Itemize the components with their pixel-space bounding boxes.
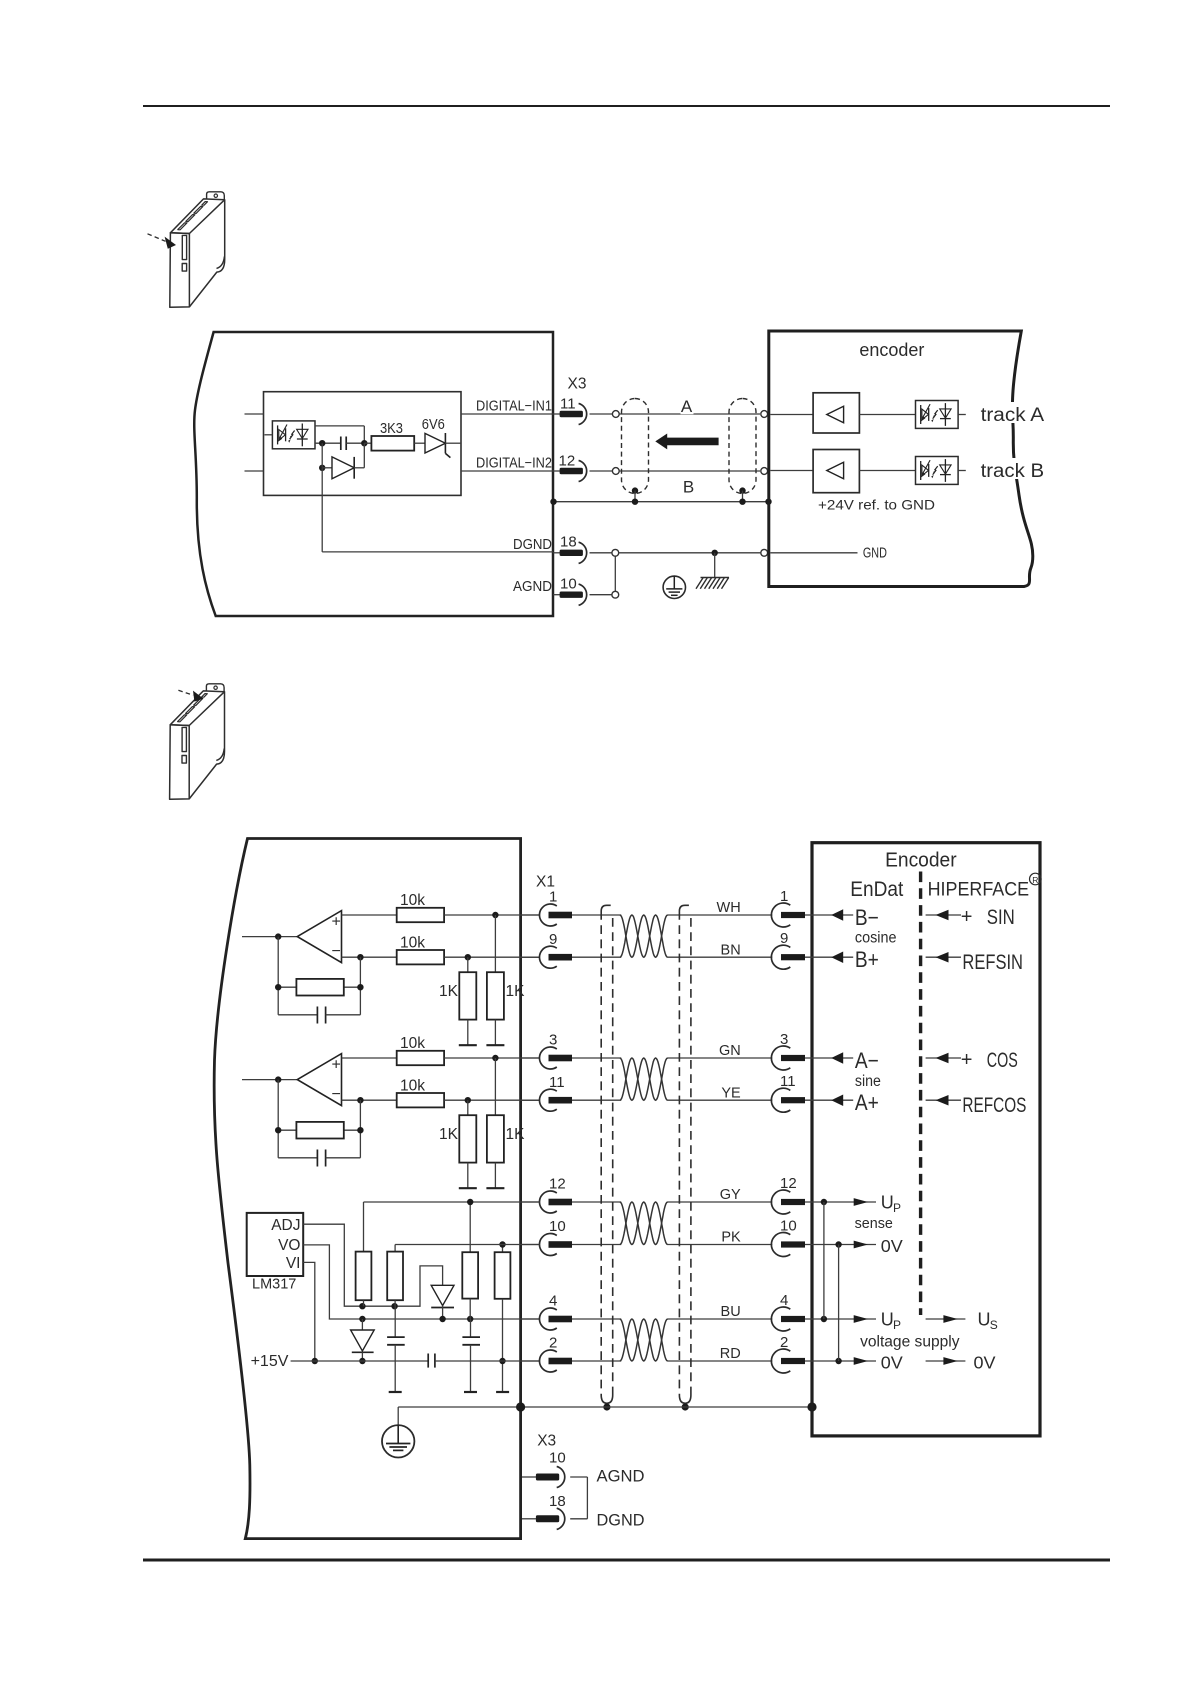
- encoder pin 3: [771, 1046, 790, 1070]
- svg-text:10: 10: [780, 1217, 797, 1234]
- resistor Rb: [394, 1245, 396, 1252]
- 0V supply row (pin 2): [805, 1360, 876, 1362]
- 10k resistor (-): [342, 1099, 397, 1101]
- svg-text:COS: COS: [987, 1049, 1018, 1072]
- resistor 3K3: [364, 442, 372, 444]
- X1 pin 4: [522, 1318, 540, 1320]
- svg-text:BN: BN: [721, 942, 741, 958]
- svg-text:1K: 1K: [439, 983, 459, 1000]
- series capacitor: [427, 1354, 429, 1368]
- leader arrow to icon 2: [178, 690, 193, 695]
- svg-text:+24V ref. to GND: +24V ref. to GND: [818, 496, 935, 512]
- svg-text:3: 3: [780, 1031, 788, 1048]
- track B buffer: [770, 470, 813, 472]
- feedback resistor: [277, 937, 279, 1015]
- diode D1: [322, 467, 332, 469]
- svg-text:P: P: [893, 1201, 901, 1215]
- svg-text:DIGITAL−IN2: DIGITAL−IN2: [476, 456, 552, 472]
- chassis ground by DGND: [714, 553, 716, 578]
- wire A: [619, 413, 760, 415]
- shield capsule 1: [622, 399, 649, 494]
- 1K resistor right: [494, 915, 496, 972]
- svg-text:1K: 1K: [506, 1126, 526, 1143]
- resistor Rc: [469, 1202, 471, 1252]
- svg-text:AGND: AGND: [513, 579, 552, 595]
- capacitor Cadj: [394, 1306, 396, 1337]
- svg-text:−: −: [332, 1086, 341, 1103]
- svg-text:GND: GND: [863, 546, 887, 562]
- svg-text:VO: VO: [278, 1237, 300, 1254]
- svg-text:1K: 1K: [506, 983, 526, 1000]
- ADJ net: [303, 1224, 442, 1306]
- svg-text:U: U: [881, 1310, 894, 1330]
- HIPERFACE REFSIN: [926, 956, 961, 958]
- PK wire internal: [395, 1244, 540, 1246]
- svg-text:+: +: [961, 1049, 973, 1071]
- feedback capacitor: [278, 1014, 317, 1016]
- optocoupler U1 (input isolator): [272, 421, 315, 449]
- cable shield dashed lines: [600, 911, 602, 1395]
- svg-text:4: 4: [780, 1292, 788, 1309]
- encoder pin 2: [771, 1349, 790, 1373]
- DGND wire to encoder: [619, 552, 761, 554]
- svg-text:AGND: AGND: [597, 1468, 645, 1486]
- svg-text:B−: B−: [855, 905, 879, 930]
- svg-text:10k: 10k: [400, 1077, 425, 1094]
- svg-text:P: P: [893, 1318, 901, 1332]
- svg-text:A−: A−: [855, 1048, 879, 1073]
- svg-text:BU: BU: [721, 1304, 741, 1320]
- svg-text:+: +: [332, 913, 341, 930]
- svg-text:4: 4: [549, 1293, 557, 1310]
- HIPERFACE REFCOS: [926, 1099, 961, 1101]
- svg-text:0V: 0V: [974, 1352, 996, 1372]
- twisted pair 4: [620, 1319, 668, 1361]
- svg-text:+: +: [332, 1056, 341, 1073]
- LM317 regulator: [247, 1213, 304, 1276]
- protection diode D2: [361, 1319, 363, 1330]
- svg-text:10k: 10k: [400, 1035, 425, 1052]
- HIPERFACE 0V: [926, 1360, 966, 1362]
- svg-text:LM317: LM317: [252, 1277, 296, 1293]
- 10k resistor (+): [342, 1057, 397, 1059]
- X1 pin 10: [522, 1244, 540, 1246]
- svg-text:10: 10: [549, 1449, 566, 1466]
- svg-text:track B: track B: [981, 461, 1045, 482]
- leader arrow to icon 1: [148, 234, 166, 242]
- jumper bracket: [586, 1477, 588, 1519]
- 10k resistor (-): [342, 956, 397, 958]
- svg-text:track A: track A: [981, 405, 1045, 426]
- 1K resistor left: [467, 957, 469, 972]
- track A label: [975, 402, 1047, 423]
- stub wires from torn edge: [245, 413, 264, 415]
- svg-text:12: 12: [559, 453, 576, 470]
- GY wire internal: [364, 1201, 540, 1203]
- signal direction arrow: [655, 434, 718, 450]
- svg-text:2: 2: [780, 1334, 788, 1351]
- node dots: [319, 440, 325, 446]
- encoder box (schematic 2): [812, 843, 1040, 1436]
- svg-text:1: 1: [780, 888, 788, 905]
- shield drain wire: [398, 1406, 812, 1408]
- svg-text:DGND: DGND: [513, 537, 552, 553]
- svg-text:U: U: [881, 1193, 894, 1213]
- label A: [681, 400, 694, 414]
- svg-text:A+: A+: [855, 1090, 879, 1115]
- svg-text:HIPERFACE: HIPERFACE: [928, 879, 1030, 900]
- op-amp input stub: [242, 936, 297, 938]
- svg-text:U: U: [978, 1310, 991, 1330]
- open terminal circles: [614, 556, 616, 591]
- svg-text:REFSIN: REFSIN: [962, 951, 1023, 974]
- encoder pin 10: [771, 1233, 790, 1257]
- resistor Rd: [502, 1245, 504, 1253]
- resistor Ra: [363, 1202, 365, 1252]
- svg-text:2: 2: [549, 1335, 557, 1352]
- svg-text:+: +: [961, 906, 973, 928]
- svg-text:1K: 1K: [439, 1126, 459, 1143]
- op-amp: [297, 1054, 341, 1106]
- DGND internal wire: [321, 468, 323, 552]
- svg-text:B+: B+: [855, 947, 879, 972]
- svg-text:10k: 10k: [400, 892, 425, 909]
- device icon (expansion card) bottom: [170, 684, 225, 800]
- svg-text:sine: sine: [855, 1073, 881, 1090]
- EnDat signal B+: [805, 956, 853, 958]
- svg-text:9: 9: [780, 930, 788, 947]
- op-amp input stub: [242, 1079, 297, 1081]
- svg-text:cosine: cosine: [855, 929, 897, 946]
- svg-text:SIN: SIN: [987, 906, 1015, 929]
- track B detector opto: [916, 457, 959, 485]
- encoder pin 1: [771, 903, 790, 927]
- wire B: [619, 470, 760, 472]
- svg-text:YE: YE: [721, 1085, 741, 1101]
- registered trademark: [1030, 873, 1042, 885]
- svg-text:GN: GN: [719, 1043, 741, 1059]
- svg-text:−: −: [332, 943, 341, 960]
- shield capsule 2: [729, 399, 756, 494]
- Up supply row (pin 4): [805, 1318, 876, 1320]
- svg-text:ADJ: ADJ: [271, 1217, 300, 1234]
- feedback capacitor: [278, 1157, 317, 1159]
- svg-text:RD: RD: [720, 1346, 741, 1362]
- 1K resistor right: [494, 1058, 496, 1115]
- twisted pair 1: [620, 915, 668, 957]
- svg-text:voltage supply: voltage supply: [860, 1334, 960, 1351]
- svg-text:X3: X3: [537, 1433, 556, 1450]
- track B label: [975, 458, 1047, 479]
- svg-text:10k: 10k: [400, 934, 425, 951]
- op-amp: [297, 911, 341, 963]
- device icon (expansion card) top: [170, 192, 225, 307]
- X1 pin 1: [522, 914, 540, 916]
- svg-text:1: 1: [549, 889, 557, 906]
- svg-text:12: 12: [780, 1175, 797, 1192]
- HIPERFACE + SIN: [926, 914, 961, 916]
- X1 pin 9: [522, 956, 540, 958]
- PE earth symbol: [663, 576, 685, 598]
- svg-text:11: 11: [560, 395, 576, 412]
- bottom rule: [143, 1559, 1110, 1562]
- svg-text:11: 11: [780, 1073, 796, 1090]
- servo drive box (schematic 2) with torn left edge: [214, 839, 520, 1539]
- svg-text:3: 3: [549, 1032, 557, 1049]
- svg-text:sense: sense: [855, 1215, 893, 1232]
- feedback resistor: [277, 1080, 279, 1158]
- 0V sense row (pin 10): [805, 1244, 876, 1246]
- svg-text:encoder: encoder: [859, 340, 924, 360]
- track A detector opto: [916, 401, 959, 429]
- Up sense row (pin 12): [805, 1201, 876, 1203]
- svg-text:6V6: 6V6: [422, 417, 445, 433]
- shield drain wire: [553, 501, 769, 503]
- EnDat signal B−: [805, 914, 853, 916]
- 1K resistor left: [467, 1100, 469, 1115]
- 10k resistor (+): [342, 914, 397, 916]
- GND wire: [770, 552, 857, 554]
- svg-text:PK: PK: [721, 1230, 741, 1246]
- svg-text:WH: WH: [717, 900, 741, 916]
- svg-text:10: 10: [549, 1218, 566, 1235]
- DIGITAL-IN2 wire: [461, 470, 553, 472]
- encoder pin 4: [771, 1307, 790, 1331]
- svg-text:12: 12: [549, 1176, 566, 1193]
- encoder pin 12: [771, 1190, 790, 1214]
- servo drive box (schematic 1) with torn left edge: [194, 332, 553, 616]
- svg-text:11: 11: [549, 1074, 565, 1091]
- zener reference diode: [431, 1285, 454, 1305]
- svg-text:0V: 0V: [881, 1236, 903, 1256]
- encoder box (schematic 1) with torn right edge: [769, 331, 1033, 587]
- input stage inner box: [264, 392, 462, 496]
- opto output wiring: [315, 425, 364, 427]
- HIPERFACE + COS: [926, 1057, 961, 1059]
- capacitor Cout: [470, 1319, 472, 1337]
- svg-text:9: 9: [549, 931, 557, 948]
- capacitor C1: [340, 437, 342, 451]
- svg-text:X3: X3: [568, 376, 587, 393]
- VI net: [303, 1262, 315, 1361]
- svg-text:18: 18: [560, 534, 577, 551]
- svg-text:DIGITAL−IN1: DIGITAL−IN1: [476, 399, 552, 415]
- zener diode 6V6: [425, 433, 445, 453]
- svg-text:DGND: DGND: [597, 1511, 645, 1529]
- X1 pin 3: [522, 1057, 540, 1059]
- track A buffer: [770, 414, 813, 416]
- top rule: [143, 105, 1110, 107]
- HIPERFACE dashed separator: [919, 872, 922, 1316]
- DIGITAL-IN1 wire: [461, 413, 553, 415]
- X1 pin 12: [522, 1201, 540, 1203]
- svg-text:0V: 0V: [881, 1352, 903, 1372]
- twisted pair 2: [620, 1058, 668, 1100]
- X1 pin 11: [522, 1099, 540, 1101]
- PE earth symbol: [397, 1407, 399, 1427]
- svg-text:REFCOS: REFCOS: [962, 1094, 1026, 1117]
- encoder pin 11: [771, 1088, 790, 1112]
- svg-text:R: R: [1032, 875, 1038, 885]
- twisted pair 3: [620, 1202, 668, 1245]
- svg-text:VI: VI: [286, 1255, 301, 1272]
- svg-text:10: 10: [560, 576, 577, 593]
- svg-text:3K3: 3K3: [380, 421, 403, 437]
- EnDat signal A+: [805, 1099, 853, 1101]
- VO net / Up rail: [303, 1245, 539, 1319]
- svg-text:EnDat: EnDat: [850, 878, 903, 901]
- HIPERFACE Us: [926, 1318, 966, 1320]
- encoder pin 9: [771, 945, 790, 969]
- X1 pin 2: [522, 1360, 540, 1362]
- svg-text:GY: GY: [720, 1187, 741, 1203]
- svg-text:A: A: [681, 397, 693, 416]
- svg-text:Encoder: Encoder: [885, 849, 957, 871]
- svg-text:+15V: +15V: [251, 1353, 289, 1370]
- EnDat signal A−: [805, 1057, 853, 1059]
- svg-text:B: B: [683, 478, 694, 497]
- svg-text:S: S: [990, 1318, 998, 1332]
